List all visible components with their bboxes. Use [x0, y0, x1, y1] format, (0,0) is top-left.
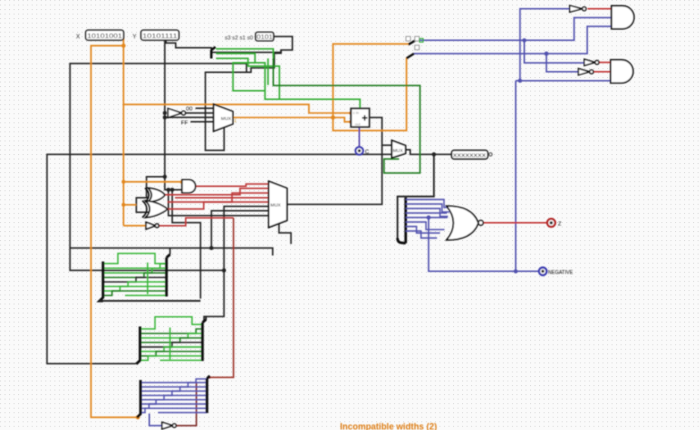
svg-text:MUX: MUX [271, 203, 281, 208]
svg-text:X: X [76, 35, 80, 41]
svg-text:Y: Y [132, 35, 136, 41]
svg-text:MUX: MUX [221, 116, 231, 121]
svg-text:Incompatible widths (2): Incompatible widths (2) [340, 422, 437, 431]
svg-text:NEGATIVE: NEGATIVE [548, 270, 574, 276]
svg-text:10101001: 10101001 [87, 33, 122, 40]
svg-text:s3 s2 s1 s0: s3 s2 s1 s0 [225, 35, 253, 41]
svg-text:xxxxxxxx: xxxxxxxx [453, 152, 487, 159]
svg-text:10101111: 10101111 [142, 33, 177, 40]
svg-text:C: C [365, 150, 369, 156]
svg-text:0101: 0101 [257, 34, 273, 41]
svg-text:FF: FF [181, 121, 189, 127]
svg-text:MUX: MUX [393, 148, 403, 153]
svg-text:c in: c in [353, 111, 359, 115]
svg-text:00: 00 [186, 107, 192, 113]
